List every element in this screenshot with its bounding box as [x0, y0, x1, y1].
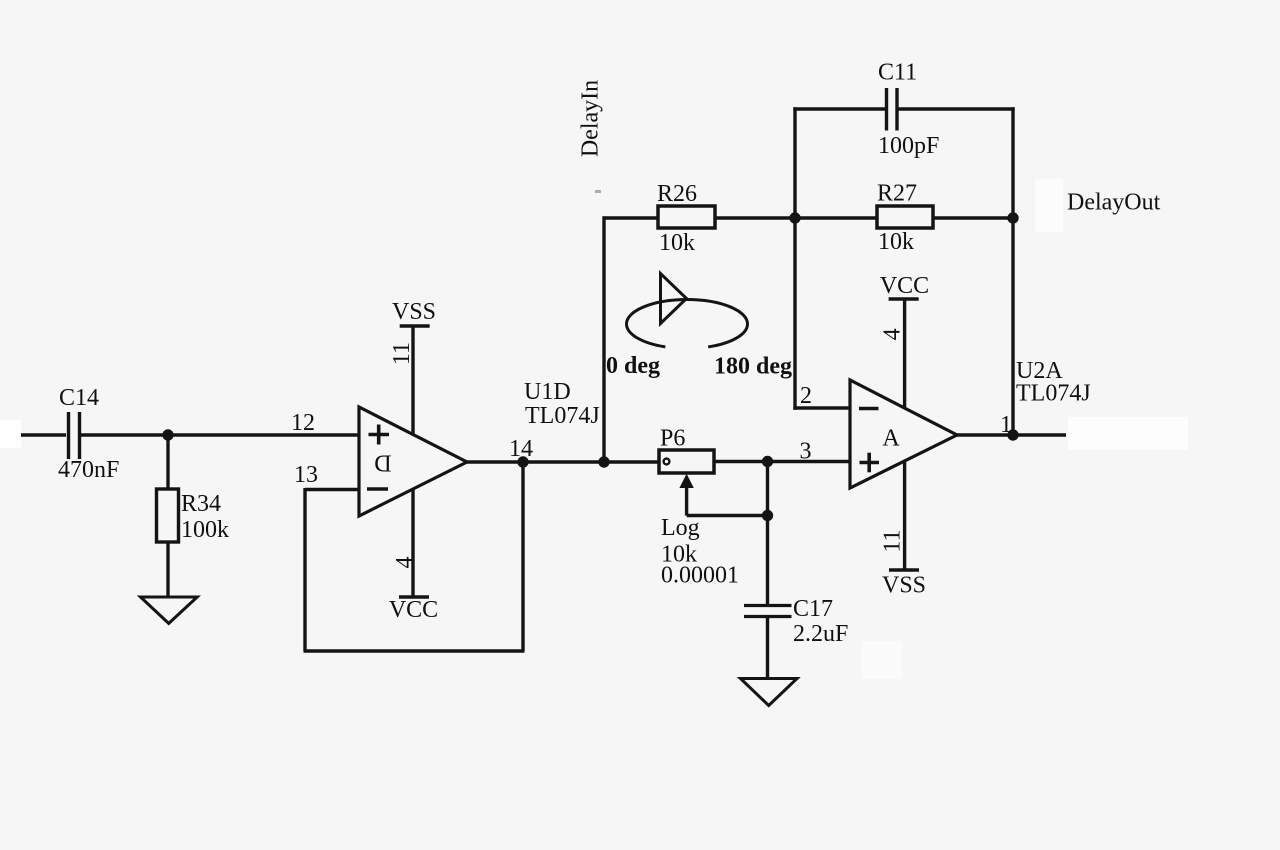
svg-text:0.00001: 0.00001 [661, 563, 739, 589]
wire: node to R27 [795, 216, 877, 220]
svg-text:TL074J: TL074J [525, 403, 600, 429]
svg-text:VSS: VSS [392, 299, 436, 325]
wire: U2A output [955, 433, 1066, 437]
resistor R27 [877, 206, 933, 228]
svg-text:VCC: VCC [880, 273, 929, 299]
VSS rail bar U1D [400, 324, 430, 328]
U1D minus input mark [367, 487, 388, 491]
node: output / DelayIn branch [598, 456, 609, 467]
svg-text:180 deg: 180 deg [714, 354, 792, 380]
VSS rail bar U2A [889, 568, 919, 572]
svg-text:R27: R27 [877, 181, 917, 207]
wire: node to R34 [166, 435, 169, 490]
wire: C14 to U1D pin 12 [81, 433, 359, 437]
wire: riser to R26 [604, 216, 658, 220]
wire: C11 right vertical [1011, 107, 1014, 218]
wire: C11 top right [899, 107, 1015, 110]
svg-text:10k: 10k [659, 230, 695, 256]
wire: U1D output to P6 [465, 460, 660, 464]
svg-text:VCC: VCC [389, 597, 438, 623]
svg-text:11: 11 [389, 342, 415, 365]
svg-text:C17: C17 [793, 596, 833, 622]
rotation symbol ellipse arc [627, 300, 748, 349]
wire: node down to C17 [766, 462, 769, 605]
svg-text:TL074J: TL074J [1016, 381, 1091, 407]
svg-text:2.2uF: 2.2uF [793, 621, 848, 647]
node: R26/R27/C11/pin2 [789, 212, 800, 223]
capacitor C14 [69, 412, 80, 459]
svg-text:100k: 100k [181, 517, 229, 543]
svg-text:470nF: 470nF [58, 457, 119, 483]
wire: output vertical riser [1011, 218, 1014, 435]
wire: C11 top left [793, 107, 885, 110]
wire: C17 to ground [766, 617, 769, 680]
svg-text:2: 2 [800, 383, 812, 409]
op-amp U1D [359, 407, 467, 516]
svg-text:12: 12 [291, 410, 315, 436]
ground (under R34) [141, 597, 198, 623]
svg-text:100pF: 100pF [878, 133, 939, 159]
VCC rail bar U2A [889, 297, 919, 301]
wire: U2A pin 11 to VSS [903, 461, 906, 570]
U2A minus input mark [859, 407, 879, 411]
svg-text:14: 14 [509, 436, 533, 462]
wire: VSS to U1D pin 11 [411, 326, 414, 434]
wire: R27 to output node [933, 216, 1013, 220]
capacitor C11 [887, 88, 898, 131]
capacitor C17 [744, 606, 792, 617]
wire: VCC to U2A pin 4 [903, 299, 906, 408]
wire: DelayIn vertical riser [602, 216, 605, 462]
wire: feedback loop bottom [304, 649, 525, 652]
resistor R34 [157, 489, 179, 542]
svg-text:R26: R26 [657, 181, 697, 207]
wire: R34 to ground [166, 542, 169, 598]
svg-text:10k: 10k [878, 229, 914, 255]
wire: wiper to node [687, 514, 768, 517]
svg-text:D: D [374, 450, 391, 476]
svg-text:1: 1 [1000, 412, 1012, 438]
P6 terminal circle [664, 459, 670, 465]
wire: pin 13 stub [305, 488, 359, 491]
VCC rail bar U1D [399, 595, 429, 599]
svg-text:0 deg: 0 deg [606, 353, 660, 379]
white patch left of DelayOut [1035, 179, 1063, 232]
white patch right of U2A output [1068, 417, 1188, 450]
node: feedback to output [517, 456, 528, 467]
svg-text:Log: Log [661, 515, 700, 541]
wire: P6 to U2A pin 3 [714, 460, 850, 464]
potentiometer P6 [659, 450, 714, 473]
node: pin3/C17 branch [762, 456, 773, 467]
wire: feedback loop left vertical [303, 488, 306, 651]
stray mark under DelayIn [595, 190, 601, 193]
op-amp U2A [850, 380, 957, 488]
wire: pin 2 horizontal [793, 406, 850, 409]
svg-text:4: 4 [392, 557, 418, 569]
svg-text:VSS: VSS [882, 573, 926, 599]
rotation symbol arrowhead [661, 274, 687, 324]
wire: R26 to summing node [715, 216, 795, 220]
node: R27/C11/output [1007, 212, 1018, 223]
svg-text:DelayIn: DelayIn [578, 80, 604, 157]
wire: C11 left vertical [793, 107, 796, 218]
svg-text:P6: P6 [660, 426, 685, 452]
node: output junction [1007, 429, 1018, 440]
wire: U1D pin 4 to VCC [411, 489, 414, 597]
U1D plus input mark [369, 425, 390, 445]
node junction at C14/R34 [162, 429, 173, 440]
white patch below U2A VSS [862, 641, 902, 679]
svg-text:3: 3 [800, 439, 812, 465]
wire: feedback loop right vertical [521, 461, 524, 651]
ground (under C17) [741, 679, 798, 706]
wire: node to U2A pin 2 vertical [793, 218, 796, 410]
svg-text:13: 13 [294, 462, 318, 488]
svg-text:C14: C14 [59, 385, 99, 411]
U2A plus input mark [860, 453, 880, 473]
white patch left edge [0, 420, 21, 448]
svg-text:DelayOut: DelayOut [1067, 190, 1161, 216]
resistor R26 [658, 206, 715, 228]
wire: input left segment [21, 433, 66, 437]
svg-text:4: 4 [880, 328, 906, 340]
svg-text:U1D: U1D [524, 379, 571, 405]
svg-text:R34: R34 [181, 491, 221, 517]
svg-text:A: A [882, 426, 900, 452]
svg-text:11: 11 [880, 529, 906, 552]
P6 wiper arrow [680, 475, 693, 516]
node: wiper junction [762, 510, 773, 521]
svg-text:C11: C11 [878, 60, 917, 86]
